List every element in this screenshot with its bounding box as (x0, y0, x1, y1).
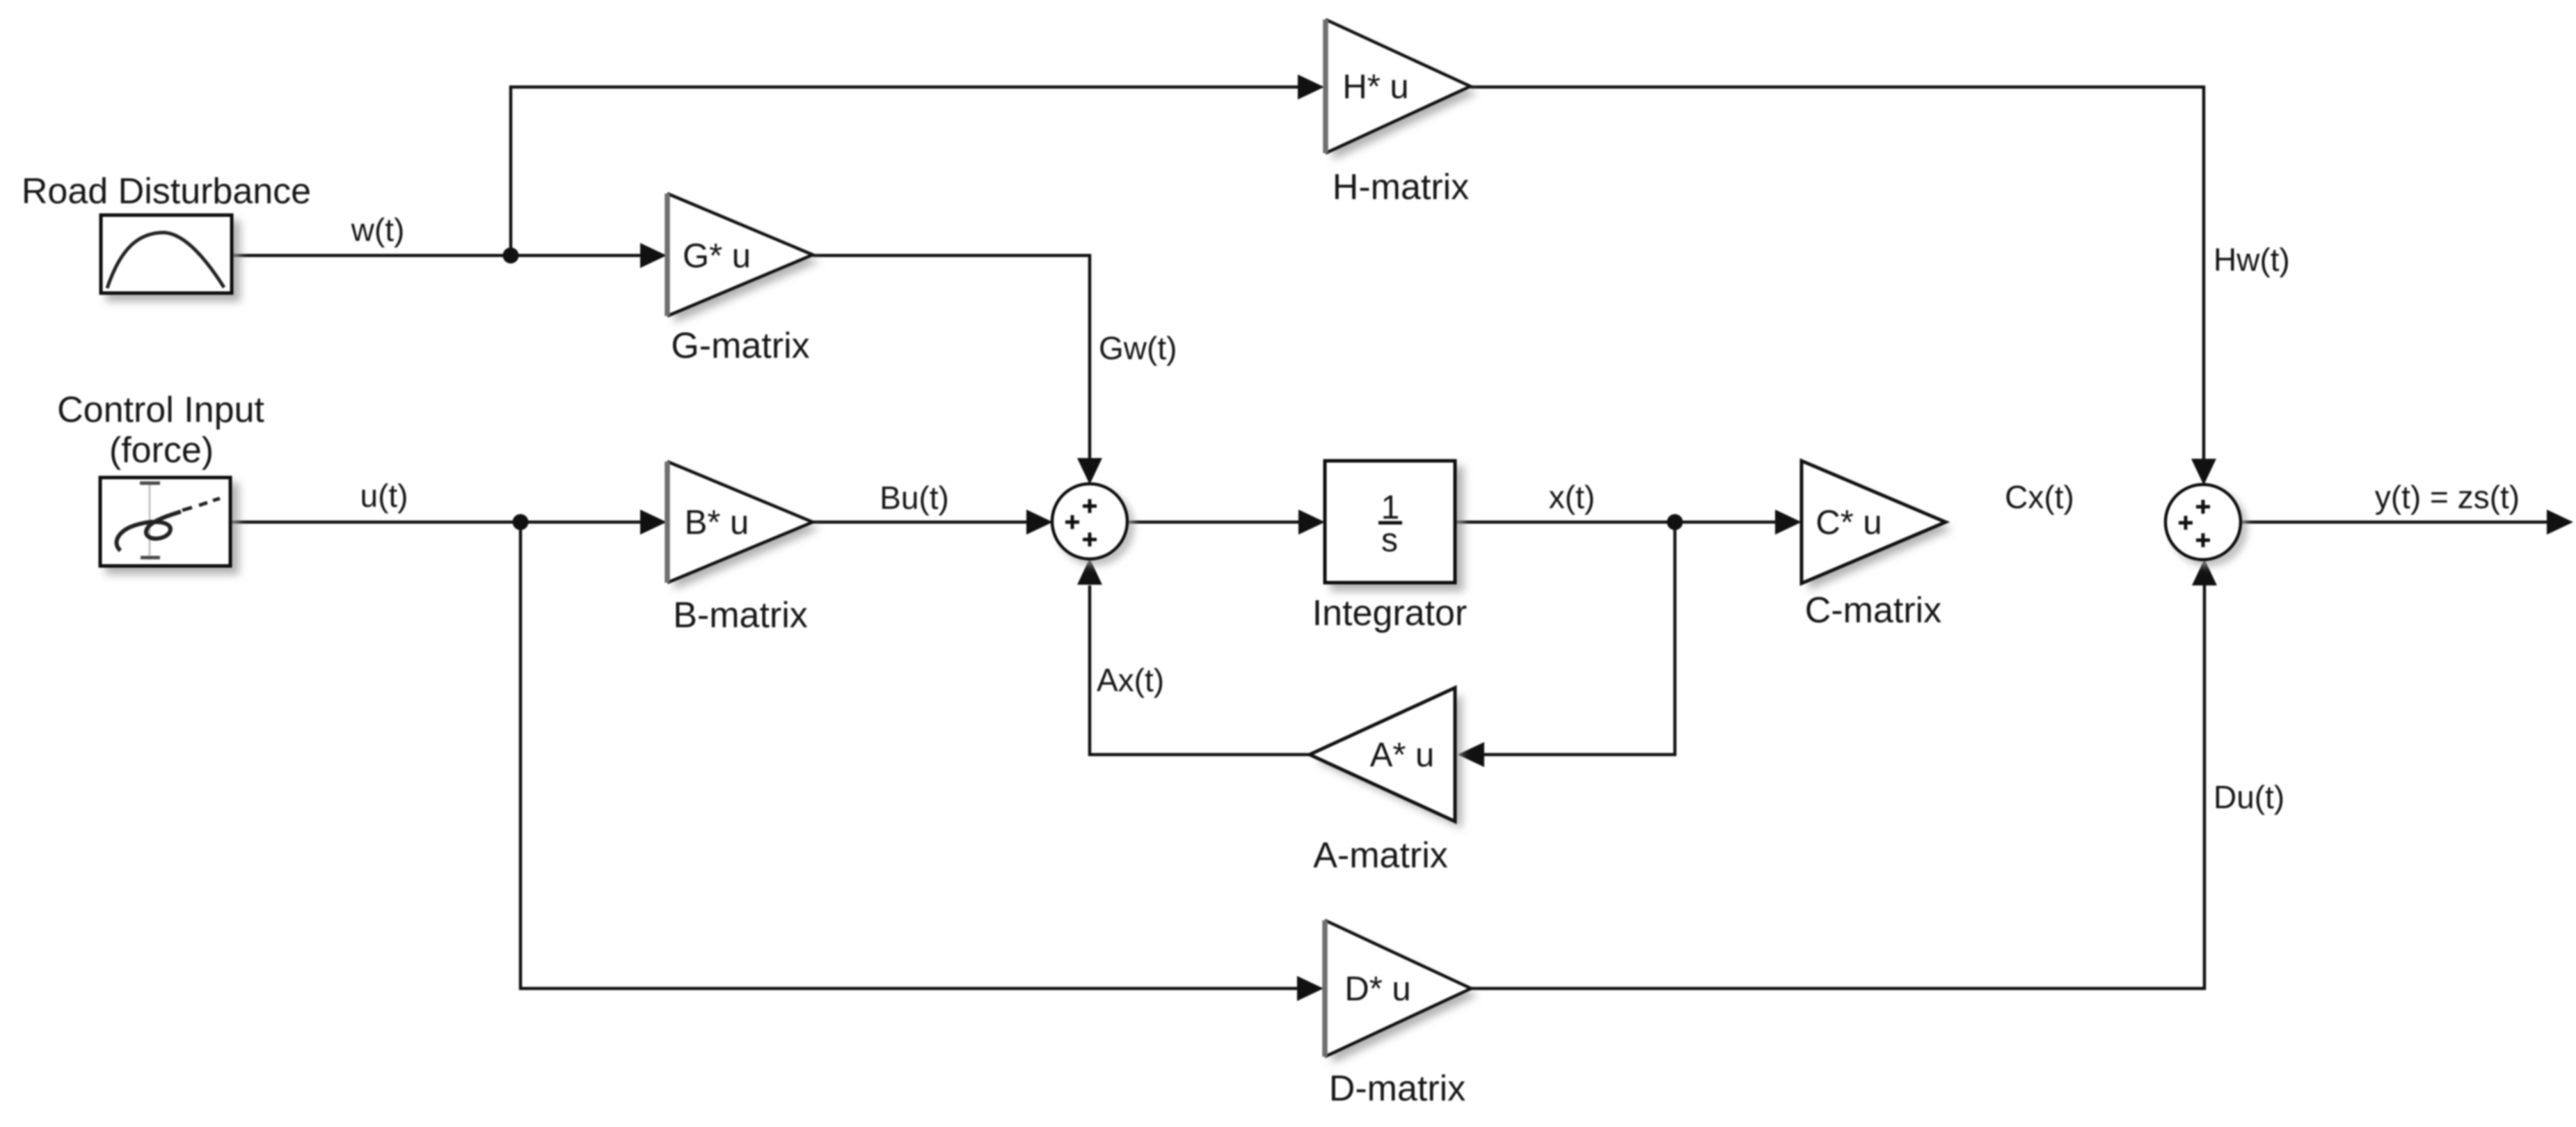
wire G-matrix output to sum1 top (Gw) (813, 255, 1090, 459)
svg-text:(force): (force) (109, 430, 214, 471)
source block Road Disturbance (101, 215, 232, 293)
svg-text:Cx(t): Cx(t) (2005, 479, 2074, 515)
sum junction sum1 (1052, 484, 1127, 559)
svg-text:G-matrix: G-matrix (671, 326, 809, 366)
wire u(t) from Control Input to B-matrix (230, 521, 641, 524)
svg-text:Bu(t): Bu(t) (880, 480, 949, 516)
arrowhead into B-matrix (640, 510, 667, 535)
svg-text:w(t): w(t) (351, 212, 405, 248)
gain D-matrix (1325, 920, 1471, 1057)
svg-text:Road Disturbance: Road Disturbance (22, 171, 311, 212)
wire w(t) from Road Disturbance to G-matrix (232, 254, 654, 258)
arrowhead into G-matrix (640, 243, 667, 268)
svg-text:Ax(t): Ax(t) (1097, 662, 1164, 698)
arrowhead into H-matrix (1298, 74, 1324, 100)
svg-text:B* u: B* u (685, 504, 749, 542)
arrowhead into sum1 top (1077, 458, 1102, 484)
svg-text:Du(t): Du(t) (2213, 779, 2284, 815)
arrowhead into Integrator (1298, 510, 1325, 535)
svg-text:C* u: C* u (1815, 504, 1882, 542)
arrowhead into D-matrix (1297, 976, 1323, 1001)
wire B-matrix output to sum1 left (Bu) (813, 521, 1027, 524)
svg-text:D* u: D* u (1344, 970, 1410, 1008)
svg-text:C-matrix: C-matrix (1805, 590, 1941, 631)
wire A-matrix output to sum1 bottom (Ax) (1090, 585, 1310, 755)
svg-text:s: s (1381, 522, 1398, 559)
wire x branch down to A-matrix (1484, 522, 1675, 755)
integrator block (1325, 461, 1455, 583)
svg-text:A-matrix: A-matrix (1313, 835, 1448, 876)
node junction x(t) (1667, 514, 1683, 530)
wire u branch down to D-matrix (520, 522, 1297, 988)
gain C-matrix (1802, 461, 1946, 583)
source block Control Input (force) (100, 478, 230, 566)
arrowhead into sum2 top (2191, 459, 2216, 485)
wire H-matrix output to sum2 top (Hw) (1470, 87, 2204, 460)
svg-text:B-matrix: B-matrix (673, 595, 808, 636)
svg-text:H-matrix: H-matrix (1333, 167, 1469, 207)
icon half-sine curve (107, 233, 224, 288)
svg-text:A* u: A* u (1370, 736, 1435, 774)
gain A-matrix (left pointing) (1310, 688, 1455, 821)
wire sum2 output y(t) (2241, 521, 2547, 524)
svg-text:Control Input: Control Input (57, 390, 264, 430)
icon signal scribble (117, 512, 181, 551)
svg-text:x(t): x(t) (1549, 479, 1595, 515)
node junction w(t) (503, 248, 519, 264)
svg-text:y(t) = zs(t): y(t) = zs(t) (2375, 479, 2520, 515)
wire Integrator output to C-matrix (x) (1455, 521, 1775, 524)
gain B-matrix (667, 462, 813, 583)
arrowhead into A-matrix (1458, 742, 1484, 767)
svg-text:H* u: H* u (1342, 68, 1408, 106)
icon signal axis (149, 483, 151, 560)
arrowhead into sum2 bottom (2192, 559, 2217, 585)
svg-text:Hw(t): Hw(t) (2213, 242, 2290, 278)
arrowhead output y(t) (2547, 510, 2573, 535)
svg-text:1: 1 (1381, 489, 1400, 526)
wire w branch up to H-matrix (511, 87, 1298, 255)
arrowhead into sum1 left (1026, 510, 1053, 535)
svg-text:G* u: G* u (683, 237, 751, 275)
svg-text:Integrator: Integrator (1312, 593, 1468, 633)
gain H-matrix (1326, 19, 1470, 153)
arrowhead into sum1 bottom (1077, 558, 1102, 585)
sum junction sum2 (2165, 484, 2241, 560)
wire D-matrix output to sum2 bottom (Du) (1471, 585, 2204, 988)
node junction u(t) (513, 514, 529, 530)
arrowhead into C-matrix (1775, 510, 1802, 535)
wire sum1 to Integrator (1127, 521, 1298, 524)
svg-text:Gw(t): Gw(t) (1099, 330, 1177, 366)
svg-text:u(t): u(t) (360, 478, 408, 514)
gain G-matrix (667, 194, 813, 316)
svg-text:D-matrix: D-matrix (1329, 1069, 1465, 1109)
